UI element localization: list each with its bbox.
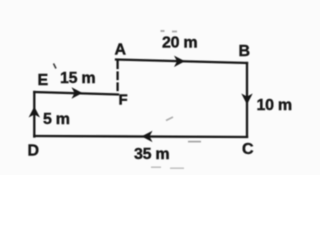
wire E-D: [33, 92, 35, 137]
svg-text:10 m: 10 m: [257, 97, 292, 114]
svg-text:15 m: 15 m: [60, 70, 95, 87]
svg-text:D: D: [28, 143, 39, 160]
faint diagonal mark: [166, 117, 173, 121]
svg-text:C: C: [242, 141, 254, 158]
arrowhead on B-C (points down): [241, 94, 252, 105]
svg-text:5 m: 5 m: [43, 111, 70, 128]
wire D-C: [34, 136, 247, 137]
svg-text:20 m: 20 m: [162, 35, 197, 52]
arrowhead on E-F (points right): [72, 87, 83, 98]
svg-text:A: A: [115, 42, 127, 59]
wire B-C: [246, 63, 248, 137]
arrowhead on D-E (points up): [29, 107, 40, 118]
faint speckles bottom: [151, 167, 161, 168]
svg-text:F: F: [119, 92, 128, 109]
svg-text:35 m: 35 m: [134, 146, 169, 163]
svg-text:E: E: [38, 72, 49, 89]
wire E-F: [34, 92, 118, 95]
svg-text:B: B: [239, 43, 250, 60]
arrowhead on C-D (points left): [142, 131, 153, 142]
faint dash under bottom line: [188, 141, 201, 143]
dashed line A-F: [116, 62, 118, 94]
speck above 20: [161, 30, 165, 32]
wire A-B: [116, 60, 247, 64]
arrowhead on A-B (points right): [174, 56, 185, 67]
stray tick before 15 m: [54, 64, 57, 69]
